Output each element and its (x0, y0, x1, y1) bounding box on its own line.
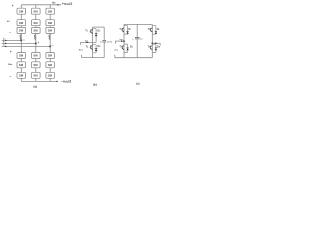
svg-text:SM: SM (19, 9, 24, 13)
svg-text:SM: SM (33, 54, 38, 58)
svg-text:va: va (7, 19, 11, 23)
svg-text:SM: SM (19, 63, 24, 67)
svg-text:SM: SM (48, 54, 53, 58)
svg-text:T4: T4 (148, 46, 150, 49)
svg-text:−: − (9, 31, 11, 35)
wire phase line b (2, 42, 36, 44)
wire top rail c (124, 23, 152, 25)
terminal bottom-left tick c (114, 55, 116, 58)
svg-text:+vdc/2: +vdc/2 (62, 2, 73, 6)
svg-text:T2: T2 (148, 28, 150, 31)
wire SM output mid (80, 41, 96, 43)
wire left AC terminal (115, 40, 124, 42)
arrow phase c current (5, 46, 7, 48)
svg-text:SM: SM (19, 21, 24, 25)
arrow i right terminal (155, 42, 157, 44)
submodule SM b2-1 (32, 53, 41, 59)
svg-text:SM: SM (33, 9, 38, 13)
submodule SM b1-n (32, 27, 41, 33)
wire left leg c (123, 24, 125, 57)
svg-text:C: C (100, 41, 102, 43)
submodule SM a1-1 (17, 8, 26, 14)
wire top DC bus (21, 4, 61, 6)
svg-text:vC: vC (140, 38, 143, 40)
svg-text:c: c (52, 45, 54, 47)
terminal right tick (159, 43, 161, 45)
svg-text:SM: SM (48, 29, 53, 33)
submodule SM c1-1 (46, 8, 55, 14)
diode D1c (124, 26, 129, 35)
wire right leg c (151, 24, 153, 57)
svg-text:D1: D1 (98, 29, 101, 32)
submodule SM b1-1 (32, 8, 41, 14)
diode D2c (152, 26, 157, 35)
svg-text:T2: T2 (86, 46, 89, 49)
wire top rail b (93, 26, 105, 28)
transistor T4c (151, 45, 153, 50)
wire leg1 vertical (20, 5, 22, 82)
submodule SM b2-n (32, 72, 41, 78)
transistor T2c (151, 28, 153, 33)
capacitor C (fig b) (102, 27, 106, 57)
node phase b junction (35, 42, 37, 44)
wire leg3 vertical (49, 5, 51, 82)
inductor arm L2 (35, 35, 36, 40)
submodule SM c2-2 (46, 62, 55, 68)
arrow bottom dc current (57, 81, 59, 83)
svg-text:SM: SM (19, 54, 24, 58)
svg-text:SM: SM (48, 21, 53, 25)
submodule SM c2-1 (46, 53, 55, 59)
node right mid junction (151, 42, 153, 44)
svg-text:−: − (9, 75, 11, 79)
submodule SM a2-n (17, 72, 26, 78)
svg-text:D2: D2 (157, 28, 160, 31)
svg-text:SM: SM (48, 9, 53, 13)
svg-text:T1: T1 (119, 28, 121, 31)
diode D4c (152, 44, 157, 52)
submodule SM a1-n (17, 27, 26, 33)
submodule SM b2-2 (32, 62, 41, 68)
svg-text:D2: D2 (98, 45, 101, 48)
diode D2 (93, 45, 98, 53)
svg-text:SM: SM (33, 73, 38, 77)
transistor T3c (122, 45, 124, 50)
svg-text:SM: SM (33, 29, 38, 33)
terminal left tick c (114, 41, 116, 44)
terminal SM bottom (81, 55, 83, 58)
submodule SM a1-2 (17, 20, 26, 26)
submodule SM b1-2 (32, 20, 41, 26)
svg-text:SM: SM (48, 63, 53, 67)
svg-text:SM: SM (33, 21, 38, 25)
svg-text:SM: SM (48, 73, 53, 77)
svg-text:−vdc/2: −vdc/2 (61, 79, 72, 83)
svg-text:a: a (23, 39, 25, 41)
node phase a junction (20, 39, 22, 41)
arrow phase b current (5, 43, 7, 45)
svg-text:vsm: vsm (114, 49, 118, 51)
inductor arm L3 (49, 35, 50, 40)
wire phase line c (2, 45, 51, 47)
svg-text:T3: T3 (119, 46, 121, 49)
terminal SM top (80, 42, 82, 45)
diode D1 (93, 29, 98, 43)
wire bottom DC bus (21, 80, 57, 82)
transistor T1 (90, 29, 93, 34)
svg-text:b: b (38, 42, 40, 44)
svg-text:+: + (10, 50, 12, 54)
transistor T2 (90, 45, 93, 50)
node left mid junction (123, 40, 125, 42)
submodule SM a2-2 (17, 62, 26, 68)
svg-text:(a): (a) (33, 84, 37, 88)
submodule SM c1-n (46, 27, 55, 33)
svg-text:SM: SM (19, 29, 24, 33)
wire phase line a (2, 39, 22, 41)
transistor T1c (122, 28, 124, 33)
wire leg2 vertical (35, 5, 37, 82)
wire right AC terminal (152, 42, 160, 44)
inductor arm L1 (20, 35, 21, 40)
svg-text:ism: ism (120, 39, 124, 41)
svg-text:T1: T1 (85, 30, 88, 33)
svg-text:(c): (c) (136, 81, 140, 85)
svg-text:ic: ic (3, 43, 5, 46)
svg-text:SM: SM (19, 73, 24, 77)
arrow i left terminal (121, 40, 123, 42)
submodule SM c2-n (46, 72, 55, 78)
svg-text:a: a (110, 40, 112, 43)
capacitor C (fig c) (135, 24, 140, 57)
submodule SM c1-2 (46, 20, 55, 26)
wire bottom rail c (115, 57, 153, 59)
svg-text:(b): (b) (93, 83, 97, 87)
arrow top dc current (57, 4, 59, 6)
submodule SM a2-1 (17, 53, 26, 59)
svg-text:idc: idc (52, 0, 56, 4)
svg-text:vda: vda (8, 62, 13, 66)
svg-text:+: + (132, 38, 134, 40)
svg-text:vsm: vsm (79, 49, 83, 52)
svg-text:SM: SM (33, 63, 38, 67)
svg-text:D4: D4 (157, 45, 160, 48)
arrow phase a current (5, 40, 7, 42)
svg-text:D3: D3 (130, 45, 133, 48)
svg-text:D1: D1 (128, 28, 131, 31)
diode D3c (124, 44, 129, 52)
wire bottom rail b (82, 57, 105, 59)
node phase c junction (49, 45, 51, 47)
svg-text:+: + (12, 4, 14, 8)
svg-text:ism: ism (85, 40, 89, 43)
arrow i_sm (86, 42, 88, 44)
wire leg b (92, 27, 94, 57)
